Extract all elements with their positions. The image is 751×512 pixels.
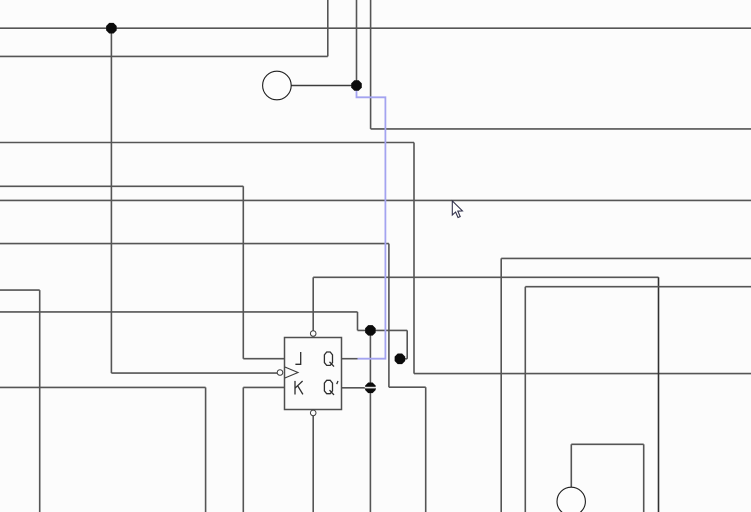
clock bubble circle: [277, 370, 283, 376]
label K: [295, 381, 303, 395]
wire highlighted blue net from dot (356,86) to Q output: [357, 91, 386, 359]
wire V x=313 from clear pin down to bottom: [312, 416, 314, 512]
wire H K input y=387 from x=243 to flip-flop: [243, 386, 284, 388]
wire H y=186 to corner x=243: [0, 185, 243, 187]
label Q: [324, 352, 334, 367]
wire H y=200 full width: [0, 199, 751, 201]
preset pin circle top of flip-flop: [310, 331, 316, 337]
wire H y=387 left segment to corner x=205: [0, 386, 206, 388]
wire H stub to dot at (400,359): [400, 358, 407, 360]
wire H y=444 from lower circle to corner x=644: [571, 443, 643, 445]
junction dot at (356,85): [351, 80, 362, 91]
wire V x=243 lower segment down to bottom: [242, 387, 244, 512]
wire H Q-prime output y=387: [342, 387, 366, 389]
wire V x=389 from y=242 down to y=387: [388, 244, 390, 388]
wire H y=387 short from x=389 to x=425: [389, 386, 426, 388]
wire H y=85 from input circle to dot: [291, 85, 356, 87]
wire V x=356 top to dot: [356, 0, 358, 86]
junction dot at (370,330): [365, 325, 376, 336]
wire V x=425 down to bottom: [425, 387, 427, 512]
wire V x=571 from circle up to y=444: [570, 444, 572, 487]
wire V x=243 upper segment down to J input: [242, 186, 244, 358]
wire V x=658 down to bottom: [658, 277, 660, 512]
clock edge triangle: [285, 367, 298, 378]
wire V x=111 from dot y=28 down to clock corner: [110, 28, 112, 373]
junction dot at (370,387) with wire stripe: [365, 383, 376, 394]
wire H y=242 to corner x=389: [0, 243, 389, 245]
input pin circle bottom-right: [557, 487, 585, 512]
junction dot at (112,28): [106, 23, 117, 34]
wire V x=313 down to preset pin: [312, 277, 314, 331]
wire V x=525 down to bottom: [524, 287, 526, 512]
wire H y=330 from corner to x=407: [358, 329, 408, 331]
wire V x=407 from y=330 to stub y=359: [406, 330, 408, 358]
wire H y=373 right segment to right edge: [414, 373, 751, 375]
wire V x=644 down to bottom: [643, 444, 645, 512]
wire H y=277 preset net from x=313 to corner x=658: [313, 276, 658, 278]
wire V x=205 down to bottom: [205, 387, 207, 512]
mouse cursor: [452, 201, 462, 218]
wire V x=357 from y=312 to y=330: [357, 312, 359, 331]
wire V x=370 lower segment from dot y=330 to bottom: [369, 330, 371, 512]
wire V x=370 top segment to corner y=128: [370, 0, 372, 129]
wire H y=28 full width: [0, 27, 751, 29]
wire V x=327 corner up to top: [327, 0, 329, 56]
wire H Q output y=358 dark part: [342, 358, 358, 360]
wire H J input y=358 to flip-flop: [243, 358, 284, 360]
node dot at (400,359): [395, 354, 406, 365]
wire H y=128 from corner to right edge: [371, 128, 751, 130]
wire H y=290 to corner x=40: [0, 289, 40, 291]
wire H y=287 from corner x=525 to right edge: [525, 286, 751, 288]
wire H y=56 to corner x=327: [0, 55, 328, 57]
wire V x=501 down to bottom: [500, 258, 502, 512]
wire H y=142 to corner x=414: [0, 142, 414, 144]
wire V x=414 from y=142 down to y=373: [413, 143, 415, 374]
wire H clock y=373 from x=111 to clock bubble: [111, 372, 277, 374]
wire H y=312 to corner x=357: [0, 311, 358, 313]
wire V x=40 down to bottom: [39, 290, 41, 512]
wire H y=258 from corner x=501 to right edge: [501, 257, 751, 259]
JK flip-flop U1: [285, 338, 342, 410]
input pin circle top-left: [263, 71, 292, 100]
clear pin circle bottom of flip-flop: [310, 410, 316, 416]
label J: [295, 352, 300, 364]
label Q-prime: [324, 380, 338, 395]
